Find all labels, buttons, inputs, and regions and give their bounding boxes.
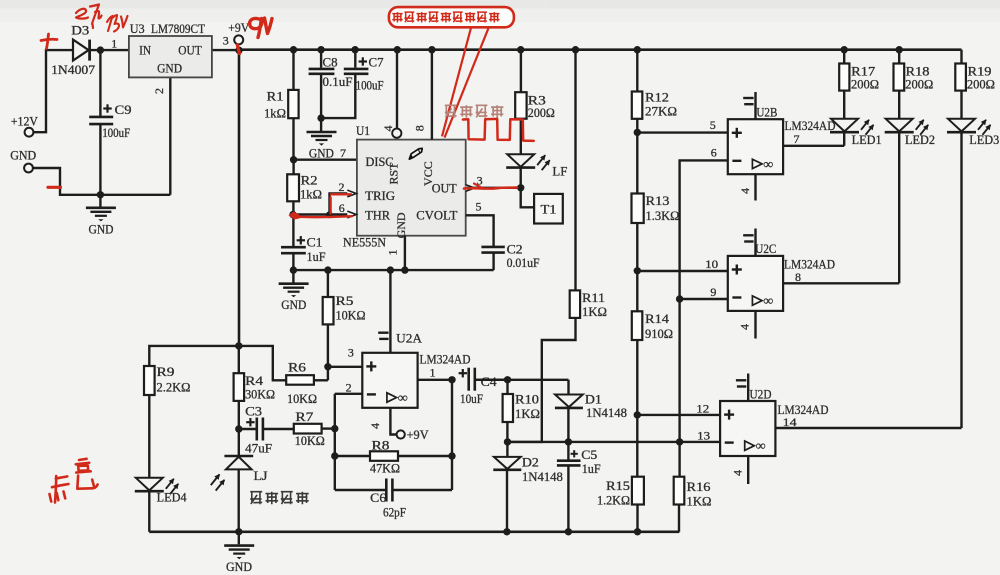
pin 6 label U2B bbox=[711, 146, 717, 160]
label R12 bbox=[645, 91, 669, 105]
wire U2D pin4 stub bbox=[747, 456, 749, 484]
label 0.01uF bbox=[507, 256, 540, 270]
wire pin2 to U2A bbox=[335, 393, 363, 395]
wire C3 left lead bbox=[239, 428, 256, 430]
wire pin2 vertical net bbox=[334, 394, 336, 490]
wire R4 top lead bbox=[238, 346, 240, 373]
wire R10 top lead bbox=[506, 380, 508, 394]
wire C3 right lead bbox=[263, 428, 294, 430]
svg-text:C9: C9 bbox=[115, 103, 132, 117]
wire pin6 feedback net bbox=[680, 160, 728, 476]
svg-text:R19: R19 bbox=[968, 65, 992, 79]
open arrow TRIG bbox=[347, 190, 356, 197]
pin 5 label bbox=[710, 118, 716, 132]
capacitor C5 bbox=[557, 461, 581, 466]
pin 2 U3 rotated bbox=[152, 88, 166, 94]
label R18 200Ohm bbox=[905, 78, 933, 92]
pin 13 label bbox=[697, 428, 710, 442]
svg-text:4: 4 bbox=[738, 188, 752, 194]
pin 2 label bbox=[346, 380, 352, 394]
capacitor C8 bbox=[309, 69, 335, 74]
wire GND terminal to ground bus bbox=[33, 168, 170, 195]
wire R7 right lead bbox=[322, 427, 335, 429]
svg-text:D3: D3 bbox=[71, 24, 89, 38]
wire THR pin6 net bbox=[293, 213, 348, 215]
label D1 1N4148 bbox=[586, 406, 627, 420]
node junction R10 top bbox=[504, 376, 511, 383]
svg-text:2: 2 bbox=[339, 180, 345, 194]
wire input from +12V terminal bbox=[33, 50, 72, 132]
wire RST pin to rail bbox=[396, 50, 398, 129]
ground symbol main bbox=[224, 532, 254, 559]
svg-text:1N4148: 1N4148 bbox=[586, 406, 627, 420]
svg-text:GND: GND bbox=[281, 298, 306, 312]
svg-text:1: 1 bbox=[111, 37, 117, 51]
wire pin5 to U2B bbox=[637, 131, 728, 133]
label U2D LM324AD bbox=[778, 402, 829, 417]
wire R3 top lead bbox=[520, 50, 522, 92]
pin 4 label rotated U2A bbox=[368, 423, 382, 429]
label R9 bbox=[157, 365, 175, 379]
label R10 1KOhm bbox=[515, 407, 540, 421]
pin 2 number bbox=[339, 180, 345, 194]
node junction pin3 bbox=[324, 363, 331, 370]
svg-text:C1: C1 bbox=[307, 236, 323, 250]
ground symbol C8/C7 bbox=[307, 118, 337, 146]
wire C6 right lead bbox=[393, 489, 452, 491]
label GND below C9 bbox=[89, 223, 114, 237]
svg-text:R6: R6 bbox=[288, 361, 306, 375]
svg-text:∞: ∞ bbox=[763, 156, 773, 171]
wire LED3 to pin14 bbox=[960, 132, 962, 428]
svg-text:C2: C2 bbox=[507, 242, 523, 256]
wire D1 top bend bbox=[567, 380, 569, 395]
pin label CVOLT bbox=[416, 209, 457, 223]
svg-text:D1: D1 bbox=[585, 392, 602, 406]
label C6 bbox=[370, 491, 386, 505]
label GND main bbox=[226, 560, 252, 574]
wire rail junction R12 bbox=[634, 46, 641, 53]
svg-text:0.01uF: 0.01uF bbox=[507, 256, 540, 270]
svg-text:R15: R15 bbox=[606, 479, 630, 493]
svg-text:10uF: 10uF bbox=[460, 392, 483, 406]
svg-text:LM324AD: LM324AD bbox=[420, 352, 471, 367]
svg-text:200Ω: 200Ω bbox=[967, 78, 995, 92]
wire R9 bottom lead bbox=[148, 395, 150, 477]
label R16 1KOhm bbox=[687, 494, 712, 508]
label 0.1uF bbox=[323, 75, 353, 89]
wire rail junction R18 bbox=[896, 46, 903, 53]
label U1 bbox=[356, 123, 370, 138]
wire C7 bottom to C8 bottom bbox=[321, 74, 355, 118]
node junction NE555 GND pin bbox=[401, 266, 408, 273]
svg-text:R11: R11 bbox=[582, 291, 605, 305]
label R8 47KOhm bbox=[370, 462, 400, 476]
label R14 bbox=[645, 312, 670, 326]
wire DISC pin7 net bbox=[294, 158, 357, 160]
node junction R10/D2/R11 net bbox=[504, 438, 511, 445]
svg-text:62pF: 62pF bbox=[383, 506, 406, 520]
node junction R8 right bbox=[448, 452, 455, 459]
svg-text:U2C: U2C bbox=[755, 241, 776, 256]
label hongwai jieshou (infrared receive) bbox=[250, 492, 309, 505]
resistor R2 bbox=[287, 174, 299, 201]
wire +9V rail (top horizontal bus y=49.7) bbox=[239, 48, 962, 51]
svg-text:9: 9 bbox=[710, 285, 716, 299]
wire rail end to R19 bbox=[960, 50, 962, 64]
svg-text:R16: R16 bbox=[687, 480, 711, 494]
label R3 200Ohm bbox=[528, 106, 555, 120]
pin 7 number bbox=[0, 0, 1, 1]
wire LED2 to pin8 bbox=[898, 132, 900, 283]
label R1 bbox=[267, 90, 284, 104]
wire U3 GND pin 2 down bbox=[169, 77, 171, 194]
resistor R10 bbox=[503, 394, 513, 422]
svg-text:10KΩ: 10KΩ bbox=[336, 309, 366, 323]
label GND terminal bbox=[10, 149, 36, 163]
resistor R3 bbox=[515, 92, 526, 119]
svg-text:IN: IN bbox=[139, 44, 151, 58]
svg-text:LED2: LED2 bbox=[905, 133, 935, 147]
svg-text:5: 5 bbox=[476, 200, 482, 214]
label R2 bbox=[301, 174, 318, 188]
red callout text duoxie zhendang chansheng juxingbo bbox=[392, 12, 499, 22]
wire U2B out pin7 bbox=[783, 145, 844, 147]
svg-text:6: 6 bbox=[711, 146, 717, 160]
svg-text:CVOLT: CVOLT bbox=[416, 209, 457, 223]
red tick at +9V junction bbox=[237, 45, 239, 54]
pin 7 label bbox=[794, 132, 800, 146]
svg-text:1.2KΩ: 1.2KΩ bbox=[597, 494, 630, 508]
label C3 plus bbox=[246, 418, 254, 426]
label R8 bbox=[372, 439, 390, 453]
svg-text:1KΩ: 1KΩ bbox=[582, 305, 607, 319]
capacitor C1 bbox=[281, 247, 306, 253]
red overlay pin3 tick bbox=[474, 184, 483, 189]
wire R13 bottom lead bbox=[636, 223, 638, 311]
svg-text:R1: R1 bbox=[267, 90, 284, 104]
red handwriting 1.3V bbox=[107, 15, 128, 32]
label C7 plus bbox=[359, 57, 367, 65]
label NE555N bbox=[343, 235, 386, 249]
wire U3 OUT to +9V node bbox=[212, 49, 239, 51]
label R1 1kOhm bbox=[264, 107, 286, 121]
svg-text:5: 5 bbox=[710, 118, 716, 132]
ground symbol below C1 bbox=[279, 270, 309, 297]
capacitor C4 bbox=[469, 368, 475, 391]
svg-text:12: 12 bbox=[696, 401, 709, 415]
wire U2B power pin bbox=[754, 92, 756, 119]
svg-text:C7: C7 bbox=[369, 56, 384, 70]
label D1 bbox=[585, 392, 602, 406]
wire D3 cathode to U3 IN bbox=[91, 49, 129, 51]
svg-text:R12: R12 bbox=[645, 91, 669, 105]
label hongwai fashe (infrared emit) bbox=[445, 105, 504, 117]
label U2C bbox=[755, 241, 776, 256]
svg-text:∞: ∞ bbox=[763, 293, 773, 308]
node junction R2/THR/C1 bbox=[289, 211, 296, 218]
label C5 bbox=[581, 448, 597, 462]
wire pin12 to U2D bbox=[637, 414, 720, 416]
label R2 1kOhm bbox=[300, 188, 322, 202]
resistor R8 bbox=[370, 451, 398, 461]
wire D1 bottom lead bbox=[567, 408, 569, 459]
red overlay TRIG-THR bbox=[295, 194, 352, 217]
svg-text:8: 8 bbox=[413, 125, 427, 131]
pin 4 rotated with bubble bbox=[381, 126, 401, 138]
pin 4 rotated U2D bbox=[731, 470, 745, 476]
capacitor C7 bbox=[344, 69, 369, 74]
red arrowhead at R2 junction bbox=[289, 212, 304, 220]
wire C9 bottom lead bbox=[99, 125, 101, 195]
wire R16 bottom lead bbox=[678, 505, 680, 532]
pin label THR bbox=[365, 209, 391, 223]
svg-text:C3: C3 bbox=[245, 405, 262, 419]
wire C7 top lead bbox=[354, 50, 356, 68]
wire LED4 to bottom rail bbox=[148, 492, 150, 532]
svg-text:47uF: 47uF bbox=[245, 441, 272, 455]
label R3 bbox=[528, 94, 546, 108]
svg-text:+9V: +9V bbox=[228, 21, 249, 35]
wire pin13 net bbox=[508, 441, 721, 443]
wire C5 bottom lead bbox=[567, 466, 569, 532]
svg-text:10: 10 bbox=[705, 257, 718, 271]
svg-text:LED3: LED3 bbox=[969, 133, 999, 147]
capacitor C3 bbox=[257, 418, 263, 441]
transformer T1 box bbox=[534, 194, 563, 224]
svg-text:200Ω: 200Ω bbox=[851, 78, 879, 92]
label LED4 bbox=[157, 490, 188, 504]
pin 6 number bbox=[339, 201, 345, 215]
wire C8 bottom lead bbox=[320, 74, 322, 118]
node junction TRIG tie bbox=[326, 211, 333, 218]
svg-text:R4: R4 bbox=[245, 374, 264, 388]
pin 3 number bbox=[477, 173, 483, 187]
pin 8 label bbox=[795, 270, 801, 284]
wire R12 bottom lead bbox=[636, 119, 638, 194]
svg-text:13: 13 bbox=[697, 428, 710, 442]
label R12 27KOhm bbox=[645, 105, 677, 119]
wire rail junction C8 bbox=[317, 46, 324, 53]
label +9V at U2A bbox=[407, 428, 429, 442]
wire U2C power pin bbox=[754, 229, 756, 256]
node junction pin9 bbox=[676, 295, 683, 302]
svg-text:1uF: 1uF bbox=[307, 250, 326, 264]
label 10uF bbox=[460, 392, 483, 406]
label R5 10KOhm bbox=[336, 309, 366, 323]
svg-text:200Ω: 200Ω bbox=[905, 78, 933, 92]
wire pin10 to U2C bbox=[637, 270, 728, 272]
label C1 bbox=[307, 236, 323, 250]
label U3 LM7809CT bbox=[130, 21, 205, 36]
svg-text:2.2KΩ: 2.2KΩ bbox=[157, 381, 191, 395]
wire R8 right lead bbox=[398, 455, 452, 457]
svg-text:GND: GND bbox=[394, 212, 408, 238]
svg-text:U2D: U2D bbox=[750, 386, 772, 401]
node junction R8 left bbox=[331, 452, 338, 459]
label R5 bbox=[336, 294, 354, 308]
wire rail junction x575 bbox=[572, 46, 579, 53]
pin label TRIG bbox=[365, 189, 395, 203]
op-amp U2D bbox=[720, 401, 775, 456]
label R6 10KOhm bbox=[287, 392, 317, 406]
label C3 bbox=[245, 405, 262, 419]
svg-text:OUT: OUT bbox=[432, 182, 457, 196]
wire U2C pin4 stub bbox=[754, 311, 756, 339]
wire rail junction C7 bbox=[351, 46, 358, 53]
node junction C9/ground bus bbox=[97, 191, 104, 198]
label LED1 bbox=[852, 133, 882, 147]
wire junction to T1 bbox=[521, 188, 534, 208]
resistor R1 bbox=[288, 90, 298, 118]
wire U2C out pin8 bbox=[783, 282, 899, 284]
wire U2D out pin14 bbox=[776, 427, 961, 429]
wire C2 bottom lead bbox=[492, 253, 494, 270]
svg-text:1N4007: 1N4007 bbox=[51, 63, 95, 77]
wire pin9 to U2C bbox=[680, 298, 728, 300]
svg-text:1uF: 1uF bbox=[582, 462, 601, 476]
node junction U2A power bbox=[387, 266, 394, 273]
label LF bbox=[552, 165, 567, 179]
svg-text:1kΩ: 1kΩ bbox=[264, 107, 286, 121]
regulator U3 LM7809CT bbox=[129, 36, 212, 77]
mouse cursor pencil bbox=[409, 148, 422, 159]
label U2C LM324AD bbox=[784, 257, 835, 272]
svg-text:0.1uF: 0.1uF bbox=[323, 75, 353, 89]
diode D1 bbox=[555, 395, 583, 408]
resistor R18 bbox=[894, 64, 905, 91]
node junction rail LJ/GND bbox=[235, 528, 242, 535]
label 1N4007 bbox=[51, 63, 95, 77]
wire C4out vertical bbox=[451, 380, 453, 490]
svg-text:4: 4 bbox=[368, 423, 382, 429]
node junction R5 top bbox=[324, 266, 331, 273]
label C5 plus bbox=[571, 450, 578, 457]
wire LF to junction bbox=[520, 168, 522, 188]
label +12V bbox=[11, 115, 38, 129]
resistor R19 bbox=[955, 64, 966, 91]
pin 1 U3 bbox=[111, 37, 117, 51]
label 100uF bbox=[356, 79, 384, 93]
svg-text:7: 7 bbox=[794, 132, 800, 146]
label R6 bbox=[288, 361, 306, 375]
label R10 bbox=[515, 393, 539, 407]
wire C4 right lead bbox=[475, 379, 507, 381]
wire rail junction RST bbox=[394, 46, 401, 53]
label GND 7 bbox=[309, 146, 346, 161]
red handwriting dian liang bbox=[50, 459, 98, 503]
wire C4 net to D1/R10 bbox=[475, 379, 568, 381]
svg-text:3: 3 bbox=[223, 34, 229, 48]
resistor R9 bbox=[144, 366, 155, 395]
label +9V bbox=[228, 21, 249, 35]
label C9 bbox=[115, 103, 132, 117]
terminal +9V at U2A bbox=[397, 430, 405, 438]
resistor R13 bbox=[632, 194, 644, 224]
wire rail junction R3 bbox=[517, 46, 524, 53]
svg-text:LED4: LED4 bbox=[157, 490, 188, 504]
svg-text:R8: R8 bbox=[372, 439, 390, 453]
svg-text:RST: RST bbox=[387, 162, 401, 185]
label U2A LM324AD bbox=[420, 352, 471, 367]
svg-text:T1: T1 bbox=[541, 203, 557, 217]
resistor R11 bbox=[570, 290, 580, 318]
wire R6 right lead bbox=[314, 379, 328, 381]
node junction pin12 bbox=[634, 411, 641, 418]
resistor R5 bbox=[323, 297, 334, 324]
wire U2A out bbox=[418, 379, 452, 381]
svg-text:R14: R14 bbox=[645, 312, 670, 326]
wire U2A pin4 to +9V bbox=[390, 408, 396, 435]
node junction pin5 bbox=[634, 129, 641, 136]
label R4 30KOhm bbox=[245, 388, 275, 402]
capacitor C6 bbox=[386, 479, 392, 502]
label GND below C1 bbox=[281, 298, 306, 312]
LED LED3 symbol bbox=[947, 119, 991, 135]
node junction R7/pin2 net bbox=[331, 425, 338, 432]
power bars U2B bbox=[743, 98, 753, 104]
red plus mark at D3 bbox=[41, 34, 57, 49]
resistor R16 bbox=[674, 477, 685, 505]
label 1uF bbox=[307, 250, 326, 264]
ground symbol below C9 bbox=[86, 195, 116, 222]
label D2 1N4148 bbox=[522, 470, 563, 484]
svg-text:8: 8 bbox=[795, 270, 801, 284]
wire bottom ground rail bbox=[149, 530, 679, 533]
svg-text:R18: R18 bbox=[906, 65, 930, 79]
pin label DISC bbox=[366, 155, 394, 169]
svg-text:100uF: 100uF bbox=[356, 79, 384, 93]
node +9V junction at U3 output bbox=[235, 47, 242, 54]
svg-text:6: 6 bbox=[339, 201, 345, 215]
open arrow OUT bbox=[466, 185, 475, 192]
red overlay OUT wire bbox=[464, 187, 517, 188]
red square wave sketch bbox=[463, 119, 534, 141]
pin 8 rotated bbox=[413, 125, 427, 131]
resistor R14 bbox=[632, 311, 643, 340]
wire NE555 GND pin down bbox=[404, 236, 406, 270]
svg-text:2: 2 bbox=[152, 88, 166, 94]
wire rail junction R17 bbox=[841, 46, 848, 53]
svg-text:LF: LF bbox=[552, 165, 567, 179]
node junction D3/C9 bbox=[97, 46, 104, 53]
node junction U2A out / C4 bbox=[448, 376, 455, 383]
wire R18 top lead bbox=[898, 50, 900, 64]
terminal +12V bbox=[25, 128, 34, 137]
terminal +9V bbox=[234, 35, 243, 44]
pin 3 U3 bbox=[223, 34, 229, 48]
label R14 910Ohm bbox=[645, 327, 673, 341]
svg-text:U2B: U2B bbox=[756, 105, 777, 120]
label R4 bbox=[245, 374, 264, 388]
label R17 bbox=[851, 65, 875, 79]
label R17 200Ohm bbox=[851, 78, 879, 92]
svg-text:C8: C8 bbox=[323, 56, 338, 70]
pin label RST rotated bbox=[387, 162, 401, 185]
svg-text:4: 4 bbox=[731, 470, 745, 476]
diode D2 bbox=[493, 457, 521, 470]
wire left +9V vertical x=239 bbox=[238, 50, 241, 346]
wire R9/R4 top net bbox=[149, 346, 286, 380]
svg-text:R7: R7 bbox=[295, 410, 313, 424]
wire CVOLT to C2 bbox=[466, 215, 494, 246]
resistor R6 bbox=[286, 375, 314, 385]
svg-text:1: 1 bbox=[386, 250, 400, 256]
label C5 1uF bbox=[582, 462, 601, 476]
svg-text:R13: R13 bbox=[646, 194, 670, 208]
svg-text:1KΩ: 1KΩ bbox=[515, 407, 540, 421]
svg-text:NE555N: NE555N bbox=[343, 235, 386, 249]
